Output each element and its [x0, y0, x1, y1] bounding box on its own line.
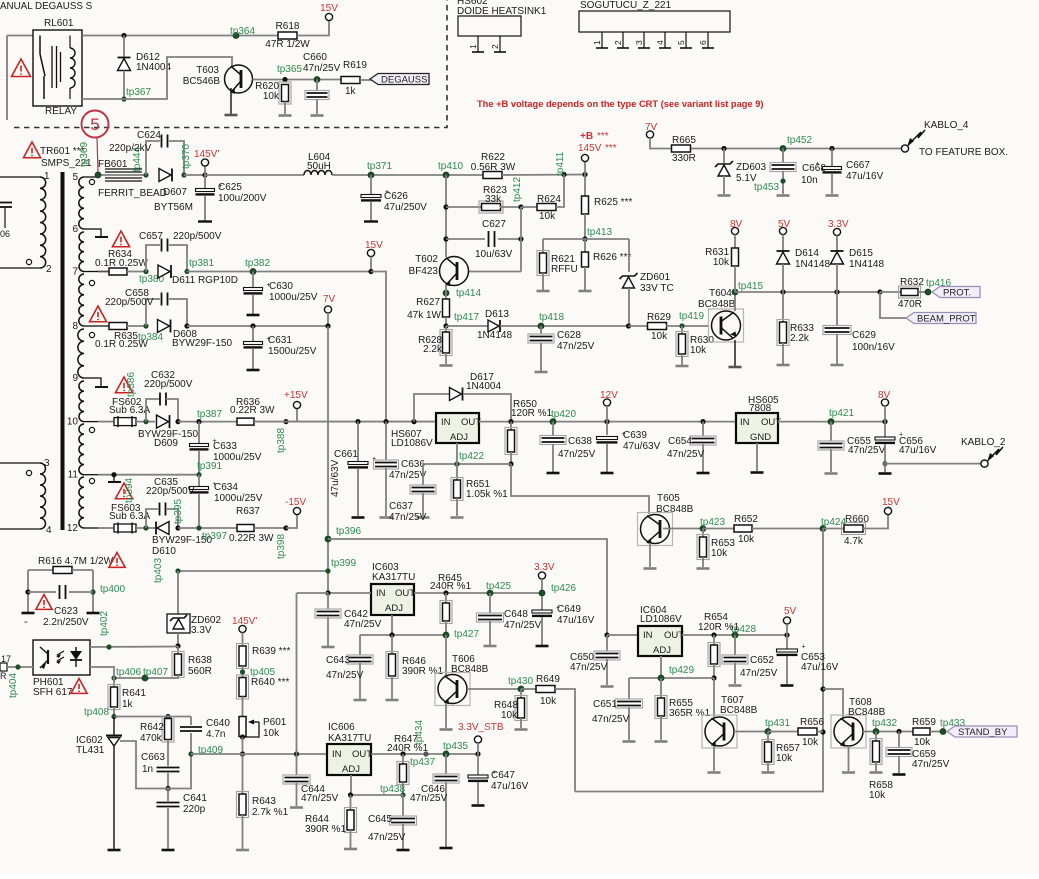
- wire PH601 bottom pin: [90, 667, 114, 678]
- svg-text:R638: R638: [188, 655, 212, 666]
- svg-text:T602: T602: [415, 254, 438, 265]
- svg-text:R619: R619: [343, 60, 367, 71]
- junction C667: [829, 146, 834, 151]
- testpoint tp415 dot: [732, 289, 738, 295]
- svg-text:R665: R665: [672, 135, 696, 146]
- capacitor C640: [190, 717, 192, 726]
- wire to +B terminal: [584, 162, 586, 175]
- wire to R636: [178, 421, 237, 423]
- pin11 termination: [113, 475, 115, 481]
- resistor R629: [629, 325, 649, 327]
- resistor R628: [445, 326, 447, 332]
- junction C650: [604, 632, 609, 637]
- junction +15V: [283, 419, 288, 424]
- svg-text:tp452: tp452: [787, 135, 812, 146]
- terminal 15V right: [884, 507, 891, 514]
- testpoint tp428 dot: [732, 632, 738, 638]
- ground C650: [601, 685, 614, 688]
- transformer TR601 core: [61, 172, 65, 530]
- ground R651: [451, 516, 464, 519]
- capacitor C658 bypass: [146, 299, 160, 326]
- wire tp408 horizontal: [114, 716, 191, 718]
- wire pin10 to FS602: [98, 421, 114, 423]
- svg-text:tp420: tp420: [551, 409, 576, 420]
- capacitor C663: [167, 740, 169, 767]
- wire tp413 horizontal: [543, 238, 629, 240]
- svg-text:47n/25V: 47n/25V: [558, 449, 596, 460]
- svg-text:tp427: tp427: [454, 629, 479, 640]
- transistor T604 BC848B: [709, 309, 744, 342]
- svg-text:47n/25V: 47n/25V: [303, 63, 341, 74]
- svg-text:tp388: tp388: [276, 428, 287, 453]
- ground C638: [547, 472, 560, 475]
- svg-text:C643: C643: [326, 655, 350, 666]
- ground R628: [440, 364, 453, 367]
- wire bus to IC603 IN: [328, 592, 371, 594]
- ground R626: [579, 290, 592, 293]
- svg-text:tp412: tp412: [512, 177, 523, 202]
- svg-text:tp430: tp430: [508, 676, 533, 687]
- svg-text:C657: C657: [139, 231, 163, 242]
- resistor R650: [510, 422, 512, 430]
- svg-text:tp411: tp411: [555, 151, 566, 176]
- svg-text:1000u/25V: 1000u/25V: [269, 292, 318, 303]
- svg-text:145V': 145V': [232, 616, 257, 627]
- wire R616 left down: [27, 570, 29, 612]
- svg-text:7V: 7V: [645, 122, 658, 133]
- svg-text:Sub 6.3A: Sub 6.3A: [109, 511, 150, 522]
- junction R650 top: [508, 419, 513, 424]
- svg-text:R629: R629: [647, 312, 671, 323]
- svg-text:ZD603: ZD603: [736, 162, 766, 173]
- svg-text:tp410: tp410: [438, 161, 463, 172]
- testpoint tp431 dot: [765, 729, 771, 735]
- svg-text:TO FEATURE BOX.: TO FEATURE BOX.: [919, 147, 1008, 158]
- svg-text:220p/500V: 220p/500V: [105, 297, 154, 308]
- wire D613 to ZD601 junction: [500, 325, 628, 327]
- wire into HS607 IN: [254, 421, 436, 423]
- wire ADJ node IC606: [350, 775, 352, 795]
- svg-text:47R 1/2W: 47R 1/2W: [265, 39, 310, 50]
- svg-text:10k: 10k: [539, 211, 556, 222]
- testpoint tp414 dot: [443, 290, 449, 296]
- wire to T607 base: [713, 678, 715, 717]
- wire to R637: [178, 527, 237, 529]
- svg-text:3: 3: [44, 458, 50, 469]
- ground C637: [417, 516, 430, 519]
- ground C668: [777, 194, 790, 197]
- capacitor C661: [357, 422, 359, 461]
- wire R618 to 15V: [297, 21, 329, 36]
- ground R644: [344, 848, 357, 851]
- regulator HS607 LD1086V: [436, 413, 479, 443]
- testpoint tp452 dot: [780, 146, 786, 152]
- junction C658 left: [143, 323, 148, 328]
- svg-text:1k: 1k: [345, 86, 357, 97]
- junction 145V: [202, 172, 207, 177]
- svg-text:tp387: tp387: [197, 409, 222, 420]
- svg-text:C661: C661: [334, 449, 358, 460]
- ground C644: [290, 806, 303, 809]
- svg-text:tp414: tp414: [456, 288, 481, 299]
- regulator IC604 LD1086V: [638, 626, 682, 656]
- junction pin11 T: [111, 472, 116, 477]
- svg-text:2.7k %1: 2.7k %1: [252, 807, 289, 818]
- junction C661: [355, 419, 360, 424]
- junction +B: [582, 172, 587, 177]
- svg-text:tp382: tp382: [245, 258, 270, 269]
- svg-text:C626: C626: [384, 191, 408, 202]
- svg-text:47u/250V: 47u/250V: [384, 202, 427, 213]
- svg-text:R643: R643: [252, 796, 276, 807]
- svg-text:C624: C624: [137, 130, 161, 141]
- junction C657 left: [143, 269, 148, 274]
- svg-text:tp391: tp391: [197, 461, 222, 472]
- svg-text:tp418: tp418: [539, 312, 564, 323]
- wire R637 to -15V: [254, 527, 286, 529]
- svg-text:KABLO_2: KABLO_2: [961, 437, 1006, 448]
- svg-text:47u/16V: 47u/16V: [801, 662, 839, 673]
- svg-text:47n/25V: 47n/25V: [344, 619, 382, 630]
- capacitor C641: [167, 789, 169, 802]
- resistor R630: [681, 326, 683, 334]
- ground C656: [879, 472, 892, 475]
- wire R652 to tp424: [752, 528, 823, 530]
- wire ZD602 to R638: [177, 633, 179, 646]
- zener diode ZD601: [628, 239, 630, 272]
- junction KABLO_2: [882, 461, 887, 466]
- svg-text:D615: D615: [849, 248, 873, 259]
- svg-text:10: 10: [67, 417, 79, 428]
- junction R644 top: [348, 792, 353, 797]
- junction C627 right: [518, 236, 523, 241]
- svg-text:47n/25V: 47n/25V: [326, 670, 364, 681]
- capacitor C628: [540, 326, 542, 336]
- svg-text:IN: IN: [643, 630, 653, 641]
- regulator IC603 KA317TU: [371, 584, 414, 615]
- ground C648: [484, 645, 497, 648]
- svg-text:STAND_BY: STAND_BY: [958, 727, 1008, 738]
- svg-text:OUT: OUT: [395, 588, 415, 599]
- svg-text:47n/25V: 47n/25V: [301, 793, 339, 804]
- svg-text:BYW29F-150: BYW29F-150: [172, 338, 232, 349]
- wire HS605 GND down: [756, 443, 758, 471]
- svg-text:C634: C634: [214, 482, 238, 493]
- svg-text:-: -: [24, 616, 28, 628]
- junction R645 top: [443, 590, 448, 595]
- wire to 145V terminal: [204, 166, 206, 175]
- svg-text:DOIDE HEATSINK1: DOIDE HEATSINK1: [457, 6, 547, 17]
- svg-text:C660: C660: [303, 52, 327, 63]
- left edge capacitor fragment: [0, 202, 12, 204]
- svg-text:220p: 220p: [183, 804, 206, 815]
- capacitor C639: [606, 422, 608, 435]
- testpoint tp407 dot: [142, 675, 148, 681]
- capacitor C633: [198, 422, 200, 443]
- terminal 8V: [731, 227, 738, 234]
- svg-text:C623: C623: [54, 606, 78, 617]
- terminal 3.3V: [538, 572, 545, 579]
- svg-text:10k: 10k: [802, 737, 819, 748]
- svg-text:PROT.: PROT.: [943, 288, 971, 299]
- capacitor C643: [359, 635, 361, 656]
- svg-text:220p/500V: 220p/500V: [144, 379, 193, 390]
- ground R643: [236, 849, 249, 852]
- svg-text:tp422: tp422: [459, 451, 484, 462]
- ground T607: [708, 771, 721, 774]
- testpoint tp427 dot: [443, 632, 449, 638]
- svg-text:P601: P601: [263, 717, 287, 728]
- svg-text:3.3V: 3.3V: [828, 219, 849, 230]
- ground HS605: [751, 471, 764, 474]
- junction ADJ: [454, 461, 459, 466]
- wire 7V bus down: [327, 326, 329, 593]
- wire IC604 OUT: [682, 634, 787, 636]
- svg-text:D609: D609: [154, 438, 178, 449]
- svg-text:120R %1: 120R %1: [511, 408, 553, 419]
- testpoint tp396 dot: [325, 536, 331, 542]
- wire tp396 to IC604 IN: [328, 539, 607, 635]
- svg-text:tp369: tp369: [79, 142, 90, 167]
- warning triangle relay: [12, 59, 31, 77]
- terminal 15V top: [325, 13, 332, 20]
- svg-text:2.2k: 2.2k: [423, 344, 443, 355]
- svg-text:7: 7: [72, 267, 78, 278]
- svg-text:120R %1: 120R %1: [698, 622, 740, 633]
- wire IC603 ADJ down: [391, 615, 393, 635]
- TR601 pin 9 stub: [84, 377, 98, 379]
- svg-text:BEAM_PROT: BEAM_PROT: [917, 314, 976, 325]
- svg-text:+15V: +15V: [284, 390, 308, 401]
- svg-text:tp435: tp435: [443, 741, 468, 752]
- svg-text:1N4148: 1N4148: [477, 330, 512, 341]
- terminal KABLO_4: [901, 145, 908, 152]
- svg-text:R642: R642: [140, 722, 164, 733]
- wire R619 to DEGAUSS tag: [360, 79, 371, 81]
- wire to -15V terminal: [286, 515, 297, 529]
- warning triangle PH601: [71, 679, 87, 694]
- junction R650 bottom: [508, 461, 513, 466]
- wire 15V rail down: [371, 272, 386, 422]
- IC602 TL431: [113, 717, 115, 736]
- svg-text:1k: 1k: [122, 699, 134, 710]
- wire to T608 base: [823, 689, 843, 718]
- capacitor C637: [422, 464, 424, 486]
- svg-text:BF423: BF423: [409, 266, 439, 277]
- wire IC603 OUT: [414, 592, 543, 594]
- junction C654: [700, 419, 705, 424]
- fuse FS603: [114, 524, 136, 532]
- resistor R639: [242, 633, 244, 646]
- svg-text:7808: 7808: [749, 403, 772, 414]
- svg-text:47n/25V: 47n/25V: [740, 668, 778, 679]
- svg-text:1500u/25V: 1500u/25V: [268, 346, 317, 357]
- svg-text:47n/25V: 47n/25V: [410, 793, 448, 804]
- resistor R652: [703, 528, 734, 530]
- svg-text:D614: D614: [795, 248, 819, 259]
- svg-text:3.3V: 3.3V: [534, 562, 555, 573]
- wire tp412 down: [520, 207, 522, 272]
- svg-text:2.2n/250V: 2.2n/250V: [43, 617, 89, 628]
- capacitor C629: [836, 292, 838, 326]
- wire R622 to +B: [502, 174, 585, 177]
- testpoint tp424 dot: [820, 526, 826, 532]
- capacitor C648: [489, 593, 491, 614]
- svg-text:5: 5: [72, 172, 78, 183]
- svg-text:10k: 10k: [776, 753, 793, 764]
- svg-text:3: 3: [634, 40, 644, 45]
- svg-text:C633: C633: [213, 441, 237, 452]
- diode D613: [446, 325, 488, 327]
- svg-text:T605: T605: [657, 493, 680, 504]
- wire tp403 down to ZD602: [177, 571, 179, 614]
- capacitor C642: [327, 593, 329, 610]
- svg-text:ANUAL DEGAUSS S: ANUAL DEGAUSS S: [0, 1, 93, 12]
- terminal 3.3V_STB: [474, 736, 481, 743]
- svg-text:47n/25V: 47n/25V: [504, 620, 542, 631]
- wire to L604: [205, 174, 304, 176]
- svg-text:D607: D607: [163, 187, 187, 198]
- svg-text:10k: 10k: [869, 790, 886, 801]
- svg-text:C629: C629: [852, 330, 876, 341]
- zener diode ZD602: [167, 614, 190, 633]
- svg-text:R632: R632: [900, 277, 924, 288]
- svg-text:LD1086V: LD1086V: [391, 438, 433, 449]
- wire tp415 to R632: [735, 291, 880, 293]
- svg-text:tp365: tp365: [277, 64, 302, 75]
- junction C623 left: [25, 589, 30, 594]
- resistor R651: [456, 464, 458, 480]
- svg-text:5: 5: [90, 115, 99, 134]
- svg-text:560R: 560R: [188, 666, 212, 677]
- terminal 8V out: [881, 399, 888, 406]
- wire R665 to KABLO_4: [691, 148, 902, 150]
- svg-text:10k: 10k: [713, 257, 730, 268]
- junction tp419: [679, 323, 684, 328]
- svg-text:8V: 8V: [730, 219, 743, 230]
- resistor R647: [402, 754, 404, 764]
- svg-text:tp415: tp415: [738, 281, 763, 292]
- resistor R635: [109, 323, 127, 330]
- TR601 pin 5 stub: [84, 176, 98, 178]
- svg-text:10k: 10k: [651, 331, 668, 342]
- svg-text:C638: C638: [568, 436, 592, 447]
- svg-text:C651: C651: [593, 699, 617, 710]
- wire IC602 ref: [120, 741, 191, 789]
- wire T602 collector down: [445, 285, 447, 299]
- svg-text:BC848B: BC848B: [656, 504, 694, 515]
- svg-text:C625: C625: [218, 182, 242, 193]
- TR601 pin 6 stub: [84, 228, 98, 230]
- ground C649: [536, 645, 549, 648]
- junction tp399: [325, 568, 330, 573]
- junction tp453: [780, 178, 785, 183]
- testpoint tp433 dot: [940, 729, 946, 735]
- junction tp413: [582, 236, 587, 241]
- junction D607 out: [181, 172, 186, 177]
- ground C628: [535, 371, 548, 374]
- svg-text:0.1R 0.25W: 0.1R 0.25W: [95, 258, 148, 269]
- junction tp367: [121, 96, 126, 101]
- ground C655: [825, 472, 838, 475]
- junction ZD603: [721, 146, 726, 151]
- svg-text:47n/25V: 47n/25V: [389, 512, 427, 523]
- junction ZD601 bottom: [626, 323, 631, 328]
- svg-text:4: 4: [655, 40, 665, 45]
- pin6 termination: [98, 229, 101, 236]
- terminal 5V out: [783, 617, 790, 624]
- svg-text:RFFU: RFFU: [551, 264, 578, 275]
- junction D617 anode: [411, 419, 416, 424]
- tag DEGAUSS: [370, 74, 429, 85]
- wire to 145V junction: [184, 174, 205, 176]
- ground T604: [729, 366, 742, 369]
- svg-text:220p/500V: 220p/500V: [146, 486, 195, 497]
- diode D617: [414, 394, 449, 422]
- svg-text:R639 ***: R639 ***: [252, 646, 290, 657]
- ground R658: [870, 771, 883, 774]
- resistor R659: [913, 728, 930, 735]
- ground R646: [386, 699, 399, 702]
- TR601 pin 11 stub: [84, 474, 98, 476]
- svg-text:47u/16V: 47u/16V: [557, 615, 595, 626]
- svg-text:47n/25V: 47n/25V: [592, 714, 630, 725]
- testpoint tp364 dot: [233, 33, 239, 39]
- resistor R623: [446, 206, 482, 208]
- svg-text:4: 4: [46, 525, 52, 536]
- svg-text:R641: R641: [122, 688, 146, 699]
- junction R642 top: [165, 714, 170, 719]
- capacitor C654: [702, 422, 704, 437]
- testpoint tp432 dot: [873, 729, 879, 735]
- ground R621: [537, 290, 550, 293]
- svg-text:8V: 8V: [878, 390, 891, 401]
- resistor R640: [237, 675, 249, 699]
- wire T604 emitter: [734, 340, 736, 366]
- wire R636 to HS607 IN: [254, 421, 436, 423]
- resistor R642: [167, 717, 169, 719]
- ground C659: [893, 773, 906, 776]
- svg-text:10k: 10k: [501, 710, 518, 721]
- junction tp400: [90, 589, 95, 594]
- svg-text:C637: C637: [389, 501, 413, 512]
- junction P601 bottom: [240, 734, 245, 739]
- junction tp438: [400, 792, 405, 797]
- svg-text:ADJ: ADJ: [342, 764, 360, 775]
- svg-text:47n/25V: 47n/25V: [557, 341, 595, 352]
- ground T605: [644, 567, 657, 570]
- svg-text:tp407: tp407: [143, 667, 168, 678]
- junction 8V out: [882, 419, 887, 424]
- svg-text:47n/25V: 47n/25V: [389, 470, 427, 481]
- svg-text:R656: R656: [800, 717, 824, 728]
- wire pin7 to R634: [98, 271, 109, 273]
- wire branch to IC606: [327, 592, 329, 594]
- tag STAND_BY: [947, 726, 1017, 737]
- svg-text:2: 2: [490, 44, 500, 49]
- wire pin5 to C624 junction: [98, 174, 146, 176]
- wire to +15V terminal: [286, 409, 297, 422]
- diode D610: [157, 522, 169, 535]
- svg-text:R649: R649: [536, 674, 560, 685]
- resistor R633: [782, 292, 784, 322]
- ground T603: [225, 114, 238, 117]
- resistor R627: [443, 299, 450, 317]
- terminal KABLO_2: [885, 463, 981, 465]
- resistor R655: [660, 678, 662, 698]
- ground C667: [826, 194, 839, 197]
- junction on tp409 rail: [240, 751, 245, 756]
